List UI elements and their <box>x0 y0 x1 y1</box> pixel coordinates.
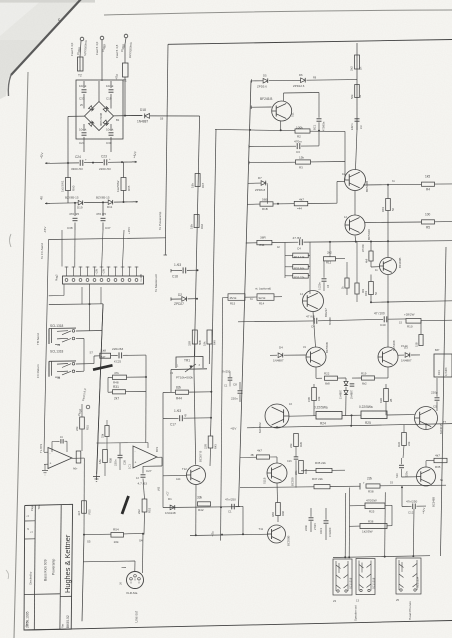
wire <box>142 534 145 573</box>
transistor T4 <box>303 291 324 312</box>
scanner strip top edge <box>0 0 95 3</box>
title block frame <box>24 504 73 630</box>
wire bus To Poweramp <box>165 44 168 255</box>
wire <box>210 419 213 436</box>
wire <box>286 533 312 535</box>
resistor R58 <box>103 450 108 463</box>
resistor R66 <box>194 215 199 228</box>
transistor T10 <box>267 463 287 483</box>
transistor T12 <box>187 466 206 485</box>
reference box R15 <box>228 294 245 301</box>
rail +15 arrow <box>133 201 138 203</box>
capacitor C2 <box>350 383 355 385</box>
wire <box>105 442 148 445</box>
wire <box>344 493 347 557</box>
wire output rail <box>247 424 452 428</box>
wire bus centre tap <box>194 116 200 372</box>
wire <box>83 101 85 109</box>
wire <box>309 278 311 294</box>
wire op-amp feedback <box>51 442 53 453</box>
wire <box>76 330 102 333</box>
wire <box>92 139 94 163</box>
resistor R1 <box>355 55 360 69</box>
capacitor C1 <box>322 278 327 280</box>
resistor R43 <box>208 436 213 448</box>
wire <box>356 130 358 170</box>
resistor R60 <box>66 178 71 191</box>
plug pin Plug8 left <box>80 37 84 41</box>
wire <box>49 238 167 240</box>
rail -42V arrow <box>45 162 50 164</box>
capacitor C15 <box>399 464 404 466</box>
transistor T9 <box>417 467 436 486</box>
wire mid rail <box>304 241 452 242</box>
wire rail -42V <box>190 534 269 535</box>
transistor T1 <box>345 170 366 191</box>
wire <box>425 461 427 467</box>
resistor R20 <box>384 389 389 402</box>
connector strip J1 <box>63 276 144 284</box>
plug pin Plug9 centre <box>100 36 104 40</box>
wire <box>421 319 452 322</box>
capacitor C31 <box>355 118 360 120</box>
wire rail upper-mid <box>371 301 452 303</box>
XLR connector J6 <box>127 572 144 589</box>
headphone connector J9 <box>396 558 421 594</box>
speaker connector J7 <box>333 559 352 595</box>
transistor T11 <box>268 525 286 543</box>
resistor R67 <box>195 174 200 187</box>
capacitor C33 <box>83 81 85 88</box>
wire connector rail <box>333 556 430 558</box>
wire <box>388 318 406 320</box>
capacitor C13 <box>324 520 329 522</box>
resistor R33 <box>293 274 309 279</box>
capacitor C26 <box>118 454 123 456</box>
zener diode D6 <box>301 78 306 83</box>
wire <box>81 404 83 417</box>
frame left border <box>97 304 103 474</box>
wire <box>145 355 147 391</box>
diode D9 bias <box>344 390 348 394</box>
resistor R53 <box>142 499 147 512</box>
capacitor C16b <box>294 456 299 458</box>
wire bus mid-left <box>97 304 104 480</box>
wire right bus <box>441 247 447 556</box>
trimmer TR1 <box>176 357 203 369</box>
wire <box>295 460 297 487</box>
resistor R49v <box>276 503 281 516</box>
wire bus main vertical <box>239 81 252 508</box>
fuse T2 <box>78 57 84 71</box>
resistor R57b <box>105 426 109 437</box>
wire top rail to 2k2 <box>356 43 358 130</box>
resistor R35v <box>294 434 299 447</box>
wire bridge plus lead <box>114 114 143 117</box>
wire <box>284 253 286 278</box>
resistor R34v <box>419 335 423 346</box>
wire <box>44 451 48 453</box>
paper top edge <box>104 10 452 15</box>
transistor T3b <box>378 347 398 367</box>
wire <box>84 533 111 535</box>
transistor T5 <box>380 258 397 275</box>
paper left edge <box>14 72 28 638</box>
power transistor T6 MJ4502 <box>265 404 289 428</box>
wire <box>101 40 103 81</box>
wire <box>84 161 103 163</box>
wire <box>157 456 162 458</box>
ink marker stroke <box>93 365 113 369</box>
resistor R52 <box>76 451 81 463</box>
wire <box>124 77 126 116</box>
capacitor C14 <box>309 517 314 519</box>
scan page corner diagonal edge <box>11 0 82 75</box>
wire <box>313 312 316 348</box>
capacitor C9 <box>228 377 233 379</box>
resistor R81b <box>369 282 374 295</box>
title block inner lines <box>34 505 35 630</box>
rail A0 arrow <box>45 202 50 204</box>
op-amp IC1b <box>133 446 157 468</box>
wire <box>72 457 84 459</box>
wire <box>387 241 389 257</box>
wire <box>194 344 196 356</box>
wire rail mid2 <box>238 320 313 323</box>
capacitor C30 <box>110 124 112 131</box>
wire <box>344 131 346 180</box>
wire <box>315 367 317 378</box>
wire rail -42V vertical <box>67 116 69 178</box>
connector pin feed wires <box>61 230 63 267</box>
zobel network box <box>434 354 452 377</box>
diode D8 bias <box>345 378 347 381</box>
capacitor C61 <box>317 118 322 120</box>
transistor T2a <box>345 215 365 235</box>
plug pin Plug8 right <box>124 34 128 38</box>
wire <box>170 370 172 393</box>
transistor T2b <box>306 347 326 367</box>
frame bottom border <box>24 621 452 631</box>
wire <box>63 284 65 296</box>
frame top border <box>168 40 452 45</box>
reference box R14 <box>257 294 274 301</box>
wire <box>50 162 68 164</box>
resistor R50 <box>192 330 197 344</box>
resistor R29 <box>355 85 360 98</box>
capacitor C21 <box>83 124 85 131</box>
resistor R23 <box>312 388 317 401</box>
bridge rectifier enclosure <box>76 80 123 139</box>
wire <box>83 458 85 534</box>
resistor R65 <box>121 178 126 191</box>
scanner background top-left corner <box>0 0 81 99</box>
wire <box>401 487 403 507</box>
wire <box>162 419 164 508</box>
bridge rectifier B1 <box>85 102 114 131</box>
power transistor T7 MJ4035 <box>415 407 438 430</box>
resistor R32 <box>293 265 309 270</box>
wire <box>163 506 240 509</box>
resistor R55 <box>82 501 87 514</box>
resistor R39 <box>299 461 304 474</box>
wire <box>289 415 316 418</box>
wire signal bus left <box>44 240 49 453</box>
ink marker stroke 2 <box>122 496 129 514</box>
wire <box>283 93 285 102</box>
resistor R81 <box>386 199 391 211</box>
wire <box>49 303 103 306</box>
wire <box>162 393 164 419</box>
resistor R34 <box>402 433 407 446</box>
fuse T1 <box>123 63 129 77</box>
wire <box>76 363 94 365</box>
resistor R16 <box>345 278 349 288</box>
resistor R17 <box>355 283 359 294</box>
resistor R51 <box>80 417 85 429</box>
wire <box>354 191 356 216</box>
wire <box>108 161 132 163</box>
speaker connector J8 <box>356 559 375 595</box>
resistor R21 <box>369 251 373 261</box>
capacitor C19 <box>110 81 112 88</box>
rail +42V arrow <box>132 161 137 163</box>
wire bus right <box>211 129 216 419</box>
wire bridge minus lead <box>68 115 85 117</box>
ground <box>42 470 48 472</box>
resistor R51b <box>207 330 212 344</box>
resistor R13 <box>293 253 309 258</box>
scan smudge left edge <box>10 234 12 247</box>
ground <box>93 476 100 478</box>
